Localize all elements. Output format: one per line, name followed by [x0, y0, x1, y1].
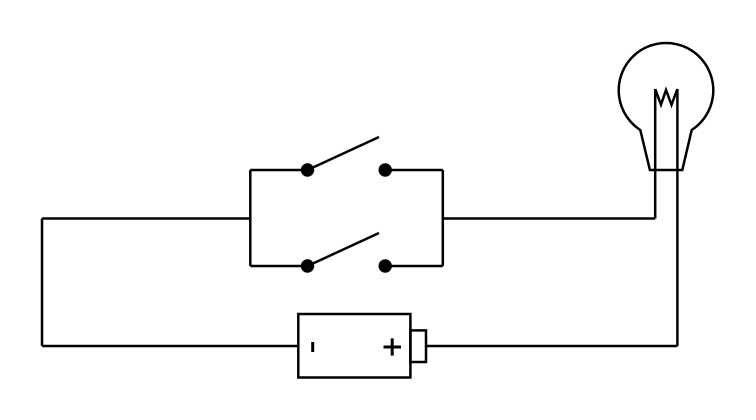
node: switch block left junction (vertical tie bar) — [249, 170, 252, 266]
switch S1 (top, open): left terminal dot — [301, 163, 314, 176]
wire: left horizontal into switch block — [42, 217, 250, 220]
wire: bottom branch left segment — [250, 265, 307, 268]
battery negative polarity mark — [311, 342, 314, 352]
wire: bottom branch right segment — [385, 265, 443, 268]
node: switch block right junction (vertical tie bar) — [442, 170, 445, 266]
battery positive polarity mark (+) — [384, 338, 402, 355]
wire: left vertical — [41, 219, 44, 347]
switch S2 (bottom, open): left terminal dot — [301, 259, 314, 272]
lamp right lead wire (down right side) — [676, 89, 679, 346]
lamp DS1 envelope (bulb glass: dome arc, neck, base) — [619, 43, 714, 170]
wire: top branch right segment — [385, 169, 443, 172]
switch S1 lever arm — [308, 137, 380, 170]
lamp filament (zigzag) — [655, 89, 677, 105]
wire: bottom right horizontal from battery to lamp lead — [426, 345, 677, 348]
switch S2 (bottom, open): right terminal dot — [379, 259, 392, 272]
switch S2 lever arm — [308, 233, 380, 266]
switch S1 (top, open): right terminal dot — [379, 163, 392, 176]
wire: bottom left horizontal to battery — [42, 345, 298, 348]
wire: top horizontal from switch block to lamp — [443, 217, 655, 220]
wire: top branch left segment — [250, 169, 307, 172]
battery BT1 positive terminal cap — [410, 330, 426, 362]
lamp left lead wire (down to switch wire) — [654, 89, 657, 219]
battery BT1 body — [298, 314, 410, 378]
